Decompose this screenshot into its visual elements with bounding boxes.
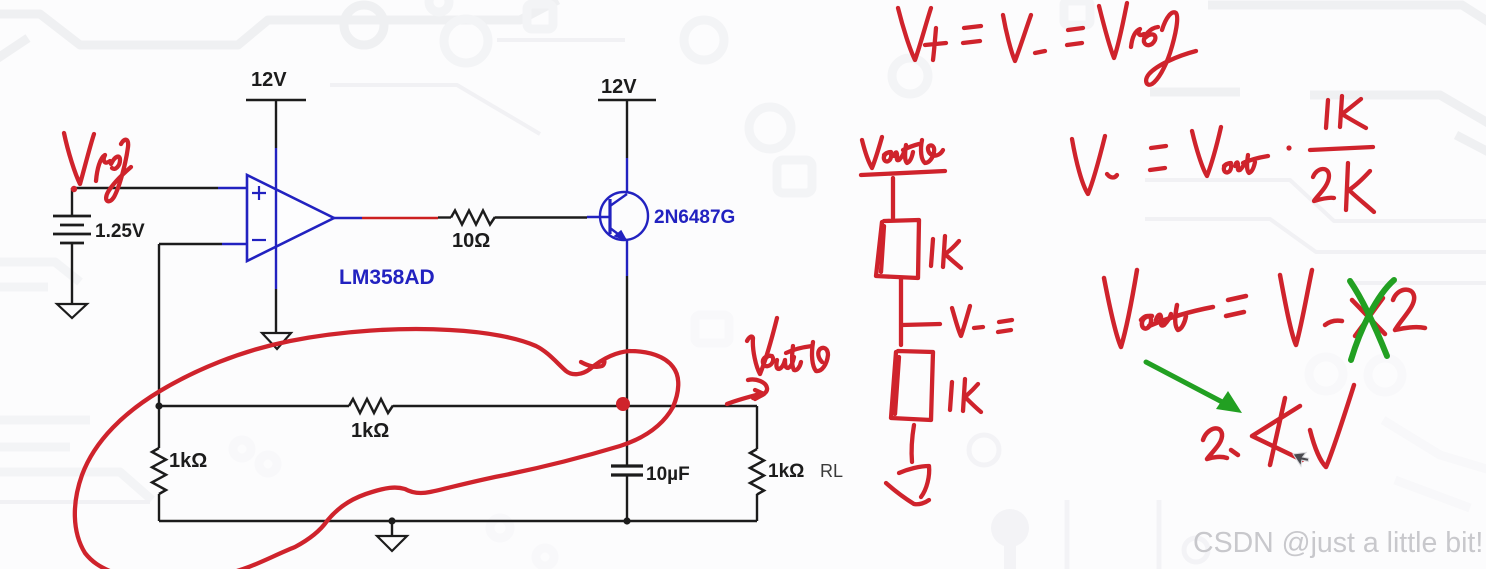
wire feedback horizontal left <box>159 405 349 407</box>
divider sketch resistor box2 <box>891 351 933 420</box>
capacitor C1 plates <box>611 466 643 475</box>
transistor Q1 emitter arrow <box>615 231 626 240</box>
divider sketch ground <box>899 466 929 497</box>
wire inverting input vertical <box>158 244 160 406</box>
divider sketch 1K label top <box>931 239 933 266</box>
PCB background traces <box>0 0 1486 158</box>
eq4 tick <box>1231 450 1238 455</box>
transistor Q1 emitter diagonal <box>610 228 626 240</box>
op-amp U1 plus input <box>252 186 266 200</box>
svg-text:12V: 12V <box>251 69 287 91</box>
ground battery <box>57 304 87 318</box>
op-amp U1 internal supply line <box>275 190 277 246</box>
wire resistor10 to transistor <box>495 216 587 218</box>
resistor R 10ohm zigzag <box>451 211 495 225</box>
wire feedback horizontal right <box>393 405 757 407</box>
wire capacitor bottom <box>626 476 628 521</box>
divider sketch wire top <box>891 178 895 218</box>
transistor Q1 circle <box>600 192 648 240</box>
annotation loop hook <box>581 360 604 367</box>
svg-text:CSDN @just a little bit!: CSDN @just a little bit! <box>1193 527 1483 559</box>
divider sketch resistor box1 <box>876 220 919 278</box>
wire left 1k top <box>158 406 160 448</box>
transistor Q1 collector diagonal <box>610 194 627 206</box>
supply bar 12V op-amp <box>246 99 306 101</box>
junction node A <box>155 402 162 409</box>
eq1 V+ <box>898 8 931 60</box>
battery V1 plates <box>53 216 91 243</box>
wire op-amp ground stem black <box>275 289 277 333</box>
eq2 dot <box>1286 145 1291 150</box>
wire left 1k bottom <box>158 494 160 521</box>
eq1 V- <box>1003 15 1031 61</box>
eq4 crossed less-than <box>1252 406 1302 460</box>
green cross stroke1 <box>1350 281 1387 356</box>
wire RL top <box>756 406 758 449</box>
svg-text:1.25V: 1.25V <box>95 221 145 242</box>
svg-text:1kΩ: 1kΩ <box>169 450 207 472</box>
ground op-amp <box>262 333 291 349</box>
eq1 equals2 <box>1067 28 1083 45</box>
annotation red node dot <box>616 397 630 411</box>
eq4 two <box>1203 428 1227 459</box>
annotation Vout arrow swoosh <box>748 379 767 398</box>
op-amp U1 output stub blue <box>334 217 362 219</box>
op-amp U1 input stubs blue <box>218 188 247 244</box>
ground bottom rail <box>377 536 407 551</box>
annotation Vout label <box>747 318 777 374</box>
eq4 V <box>1310 385 1354 467</box>
annotation Vref node dot <box>71 186 77 192</box>
wire op-amp output red segment <box>362 217 438 219</box>
annotation Vref label <box>64 133 94 184</box>
wire capacitor top <box>626 406 628 465</box>
resistor 1k feedback zigzag <box>349 399 393 413</box>
eq1 equals1 <box>963 26 981 43</box>
wire inverting input horizontal <box>159 243 222 245</box>
eq2 fraction 2K <box>1313 169 1334 201</box>
eq2 fraction 1K <box>1326 100 1328 128</box>
transistor Q1 base bar <box>608 199 611 234</box>
transistor Q1 emitter wire blue <box>626 240 628 276</box>
green cross stroke2 <box>1351 280 1394 360</box>
wire battery top to op-amp <box>72 187 218 189</box>
eq2 fraction bar <box>1310 147 1373 150</box>
eq1 Vref <box>1099 3 1127 58</box>
divider sketch 1K label bottom <box>950 382 952 410</box>
transistor Q1 base wire blue <box>587 216 610 218</box>
wire battery stem top <box>71 188 73 216</box>
svg-text:10Ω: 10Ω <box>452 230 490 252</box>
eq2 Vout <box>1192 127 1221 176</box>
mouse cursor <box>1293 450 1310 468</box>
divider sketch node tick <box>902 324 940 325</box>
wire battery stem bottom <box>71 243 73 304</box>
op-amp U1 supply wire blue <box>275 148 277 190</box>
annotation big loop around feedback <box>75 329 678 569</box>
op-amp U1 ground wire blue <box>275 246 277 289</box>
divider sketch wire mid <box>899 279 903 345</box>
divider sketch wire bottom <box>912 425 914 462</box>
eq3 two <box>1393 290 1425 330</box>
resistor 1k left vertical zigzag <box>152 448 166 494</box>
eq3 times red <box>1352 298 1385 336</box>
eq3 V- <box>1280 270 1312 345</box>
transistor Q1 collector wire blue <box>626 158 628 193</box>
op-amp U1 minus input <box>252 239 266 241</box>
svg-text:1kΩ: 1kΩ <box>351 420 389 442</box>
supply bar 12V transistor <box>598 99 656 101</box>
wire op-amp output black part <box>438 216 451 218</box>
svg-text:10µF: 10µF <box>646 464 690 485</box>
eq3 Vout <box>1104 270 1137 347</box>
svg-text:12V: 12V <box>601 76 637 98</box>
svg-text:2N6487G: 2N6487G <box>654 207 735 228</box>
green arrow shaft <box>1146 362 1226 404</box>
svg-text:1kΩ: 1kΩ <box>768 461 804 482</box>
divider sketch V- label <box>952 306 970 336</box>
divider sketch Vout label <box>862 137 882 168</box>
wire bottom rail <box>159 520 757 522</box>
eq3 equals <box>1226 296 1246 316</box>
wire RL bottom <box>756 494 758 521</box>
op-amp U1 triangle <box>247 175 334 261</box>
svg-text:LM358AD: LM358AD <box>339 266 435 289</box>
wire 12V to op-amp <box>275 100 277 148</box>
junction node ground <box>388 517 395 524</box>
resistor RL vertical zigzag <box>750 449 764 495</box>
junction node cap bottom <box>623 517 630 524</box>
wire 12V to transistor collector <box>626 100 628 158</box>
eq2 V- <box>1072 136 1105 194</box>
wire ground stem bottom <box>391 521 393 536</box>
eq2 equals <box>1150 146 1166 170</box>
svg-text:RL: RL <box>820 461 843 481</box>
wire emitter down <box>626 276 628 406</box>
green arrow head <box>1216 391 1242 413</box>
